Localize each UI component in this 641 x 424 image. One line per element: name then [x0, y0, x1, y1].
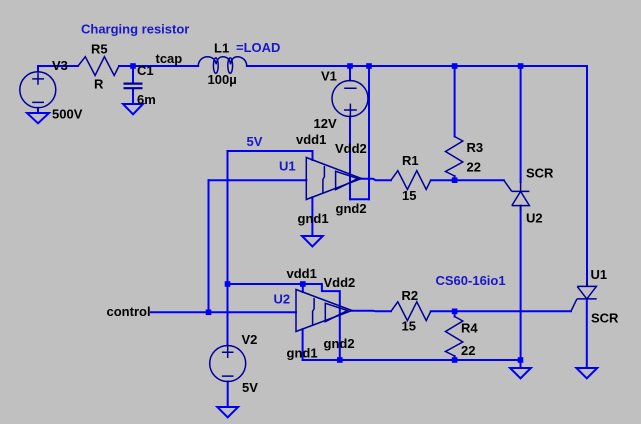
svg-text:U1: U1 — [279, 159, 296, 174]
wire 5V branch to vdd1 U2 — [228, 283, 303, 285]
op-amp U1 driver — [306, 158, 361, 200]
wire rail to R3 — [454, 66, 456, 137]
label V3 — [52, 58, 68, 73]
wire vdd1 U1 stub — [312, 151, 314, 160]
label R2 — [402, 288, 419, 303]
svg-text:R: R — [94, 77, 104, 92]
svg-text:U2: U2 — [526, 210, 543, 225]
label U2 SCR — [526, 210, 543, 225]
resistor R3 — [446, 137, 463, 177]
svg-text:R1: R1 — [402, 153, 419, 168]
wire gnd1 U1 to ground — [311, 197, 313, 236]
label 12V — [314, 116, 337, 131]
inductor L1 — [198, 57, 247, 74]
node SCR rail junction — [518, 63, 524, 69]
label comment U1 — [279, 159, 296, 174]
svg-text:R2: R2 — [402, 288, 419, 303]
node R3 gate junction — [452, 177, 458, 183]
node R4 bottom junction — [452, 357, 458, 363]
svg-text:Vdd2: Vdd2 — [335, 141, 367, 156]
label V2 — [242, 332, 258, 347]
svg-text:gnd1: gnd1 — [287, 346, 318, 361]
wire V3 top to R5 — [38, 66, 78, 72]
label comment 5V — [247, 134, 263, 149]
wire R1 to SCR gate — [431, 179, 504, 181]
wire right rail down to SCR U1 — [586, 66, 588, 286]
voltage source V1 — [332, 81, 368, 117]
capacitor C1 — [124, 84, 143, 89]
node R4 top junction — [452, 309, 458, 315]
label L1 — [214, 41, 229, 56]
wire control net — [151, 311, 296, 313]
node SCR bottom rail junction — [518, 357, 524, 363]
wire bottom rail — [303, 359, 521, 361]
wire gnd2 U1 bottom across — [350, 198, 369, 200]
wire SCR U2 cathode down to bottom rail — [520, 206, 522, 360]
svg-text:5V: 5V — [247, 134, 263, 149]
pin label gnd1 U1 — [298, 211, 329, 226]
ground below C1 — [123, 104, 143, 114]
label R5 — [91, 42, 108, 57]
wire C1 bottom stub to ground — [132, 89, 134, 104]
label R value R — [94, 77, 104, 92]
svg-text:V1: V1 — [321, 69, 337, 84]
svg-text:22: 22 — [467, 160, 481, 175]
wire U2 output to R2 — [352, 310, 391, 313]
wire V1 bottom down — [349, 117, 351, 200]
label R1 — [402, 153, 419, 168]
svg-text:C1: C1 — [137, 63, 154, 78]
svg-text:15: 15 — [402, 188, 416, 203]
wire R3 bottom lead — [454, 176, 456, 180]
ground gnd1 U1 — [302, 236, 323, 247]
wire bottom rail ground stub — [520, 360, 522, 368]
svg-text:vdd1: vdd1 — [296, 132, 326, 147]
svg-text:gnd1: gnd1 — [298, 211, 329, 226]
label 5V V2 — [242, 380, 258, 395]
svg-text:gnd2: gnd2 — [336, 201, 367, 216]
svg-text:R5: R5 — [91, 42, 108, 57]
svg-text:gnd2: gnd2 — [324, 336, 355, 351]
label V1 — [321, 69, 337, 84]
node 5V branch junction — [225, 281, 231, 287]
svg-text:SCR: SCR — [526, 166, 554, 181]
wire Vdd2 U2 staircase to bottom rail — [303, 284, 340, 360]
wire V2 bottom to ground — [227, 382, 229, 408]
label comment =LOAD — [236, 40, 280, 55]
wire U1 input vertical to control — [208, 180, 210, 312]
wire R2 to SCR U1 gate — [431, 310, 571, 312]
node control junction — [206, 310, 212, 316]
wire vdd1 U2 stub — [302, 284, 304, 292]
svg-text:R3: R3 — [467, 140, 484, 155]
svg-text:tcap: tcap — [156, 51, 183, 66]
wire rail down to SCR U2 anode — [520, 66, 522, 182]
node R3 rail junction — [452, 63, 458, 69]
svg-text:15: 15 — [402, 319, 416, 334]
pin label Vdd2 U1 — [335, 141, 367, 156]
wire V3 bottom stub to ground — [37, 108, 39, 113]
wire U1 output to R1 — [362, 179, 392, 181]
label 100u — [208, 72, 237, 87]
wire U1 input horizontal — [209, 179, 307, 181]
op-amp U2 driver — [296, 290, 352, 332]
svg-text:22: 22 — [461, 343, 475, 358]
svg-text:6m: 6m — [137, 92, 156, 107]
ground below V3 — [27, 113, 49, 123]
voltage source V3 — [20, 72, 56, 108]
svg-text:R4: R4 — [461, 321, 478, 336]
svg-text:L1: L1 — [214, 41, 229, 56]
label 500V — [52, 107, 83, 122]
thyristor SCR U2 — [504, 180, 530, 211]
svg-text:U2: U2 — [274, 291, 291, 306]
svg-text:control: control — [107, 304, 151, 319]
pin label gnd1 U2 — [287, 346, 318, 361]
svg-text:V3: V3 — [52, 58, 68, 73]
wire C1 top stub — [132, 66, 134, 83]
svg-text:=LOAD: =LOAD — [236, 40, 280, 55]
wire R5 to C1 node — [119, 65, 133, 67]
ground below V2 — [217, 407, 238, 417]
ground below SCR U1 — [576, 368, 597, 378]
label 15 R1 — [402, 188, 416, 203]
label SCR lower — [591, 311, 619, 326]
wire 5V net vertical drop — [227, 151, 229, 284]
svg-text:V2: V2 — [242, 332, 258, 347]
wire top rail L1 to right corner — [247, 65, 587, 67]
wire Vdd2 U1 riser to rail — [368, 66, 370, 199]
node vdd1 U2 junction — [300, 281, 306, 287]
node tcap junction — [130, 63, 136, 69]
label comment Charging resistor — [81, 22, 189, 37]
pin label gnd2 U1 — [336, 201, 367, 216]
resistor R5 — [78, 57, 119, 76]
svg-text:U1: U1 — [591, 267, 608, 282]
svg-text:500V: 500V — [52, 107, 83, 122]
pin label Vdd2 U2 — [324, 275, 356, 290]
pin label vdd1 U1 — [296, 132, 326, 147]
label 22 R3 — [467, 160, 481, 175]
wire R4 bottom lead — [454, 356, 456, 360]
label R3 — [467, 140, 484, 155]
label C1 — [137, 63, 154, 78]
svg-text:5V: 5V — [242, 380, 258, 395]
svg-text:vdd1: vdd1 — [287, 266, 317, 281]
wire V1 top stub — [349, 66, 351, 81]
label comment U2 — [274, 291, 291, 306]
wire gnd1 U2 to bottom rail — [302, 329, 304, 360]
node Vdd2 rail junction — [366, 63, 372, 69]
label 15 R2 — [402, 319, 416, 334]
resistor R4 — [446, 317, 463, 357]
node label tcap — [156, 51, 183, 66]
wire 5V net down to V2 — [227, 284, 229, 346]
label SCR upper — [526, 166, 554, 181]
voltage source V2 — [210, 346, 246, 382]
label 22 R4 — [461, 343, 475, 358]
pin label gnd2 U2 — [324, 336, 355, 351]
resistor R2 — [391, 302, 431, 321]
svg-text:100µ: 100µ — [208, 72, 237, 87]
svg-text:Vdd2: Vdd2 — [324, 275, 356, 290]
wire R4 top lead — [454, 311, 456, 316]
svg-text:12V: 12V — [314, 116, 337, 131]
svg-text:SCR: SCR — [591, 311, 619, 326]
wire 5V net horizontal — [228, 150, 313, 152]
wire C1 node to L1 — [133, 65, 198, 67]
node label control — [107, 304, 151, 319]
resistor R1 — [391, 171, 431, 190]
svg-text:Charging resistor: Charging resistor — [81, 22, 189, 37]
label 6m — [137, 92, 156, 107]
node gnd2 U2 rail junction — [337, 357, 343, 363]
node V1 top junction — [347, 63, 353, 69]
label U1 lower SCR — [591, 267, 608, 282]
svg-text:CS60-16io1: CS60-16io1 — [436, 273, 506, 288]
thyristor SCR U1 — [571, 281, 597, 311]
label R4 — [461, 321, 478, 336]
wire SCR U1 cathode to ground — [586, 299, 588, 368]
pin label vdd1 U2 — [287, 266, 317, 281]
label comment CS60-16io1 — [436, 273, 506, 288]
ground bottom rail — [510, 368, 531, 378]
